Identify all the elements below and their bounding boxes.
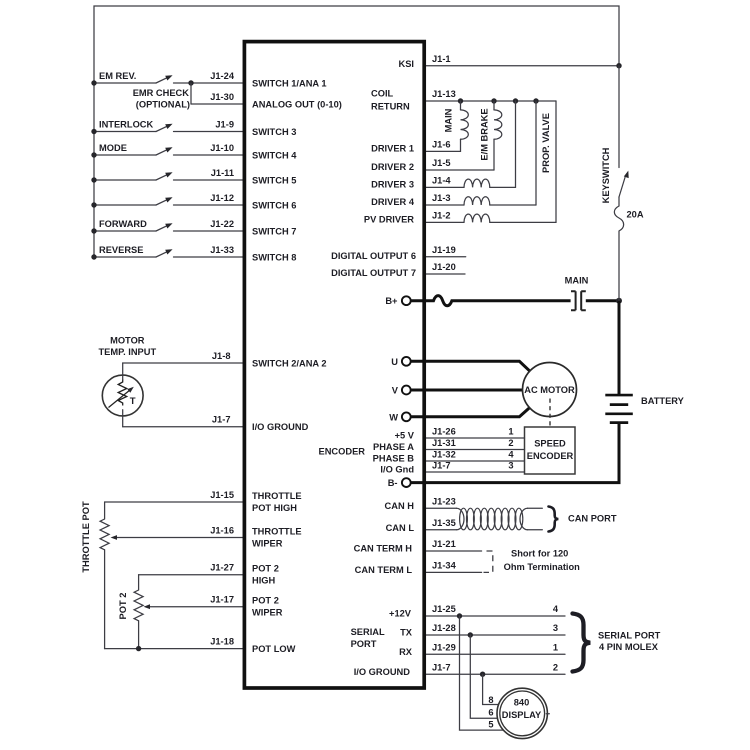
wire CAN L J1-35	[425, 518, 457, 530]
svg-text:T: T	[130, 396, 136, 407]
wire J1-19 digital output 6	[425, 245, 466, 257]
svg-text:FORWARD: FORWARD	[99, 219, 147, 229]
coil load J1-3 (driver 4)	[425, 101, 537, 205]
svg-text:J1-18: J1-18	[210, 636, 234, 646]
svg-text:J1-15: J1-15	[210, 490, 234, 500]
svg-text:J1-33: J1-33	[210, 245, 234, 255]
svg-text:3: 3	[508, 460, 513, 470]
svg-text:4: 4	[508, 449, 514, 459]
switch EM REV. input wire	[91, 71, 244, 86]
svg-text:TEMP. INPUT: TEMP. INPUT	[98, 347, 156, 357]
thermistor RT1 motor temp sensor	[102, 375, 143, 416]
svg-text:2: 2	[553, 662, 558, 672]
wire J1-20 digital output 7	[425, 262, 466, 274]
terminal V	[392, 386, 411, 396]
terminal B+	[385, 296, 410, 306]
svg-text:POT LOW: POT LOW	[252, 644, 296, 654]
svg-text:PV DRIVER: PV DRIVER	[364, 214, 414, 224]
svg-text:SWITCH 6: SWITCH 6	[252, 200, 296, 210]
terminal U	[391, 357, 410, 367]
svg-text:J1-31: J1-31	[432, 438, 456, 448]
coil PROP. VALVE J1-2 (PV driver)	[425, 101, 557, 222]
svg-text:DRIVER 3: DRIVER 3	[371, 179, 414, 189]
svg-text:DRIVER 1: DRIVER 1	[371, 143, 414, 153]
svg-text:J1-10: J1-10	[210, 143, 234, 153]
svg-text:J1-16: J1-16	[210, 525, 234, 535]
svg-text:CAN TERM L: CAN TERM L	[355, 565, 413, 575]
wire encoder I/O Gnd (J1-7, pin 3)	[380, 460, 524, 474]
controller U1 box	[244, 42, 424, 688]
svg-text:(OPTIONAL): (OPTIONAL)	[136, 100, 190, 110]
pin label POT 2 WIPER	[252, 596, 283, 618]
wire keyswitch bus upper	[618, 66, 620, 168]
svg-text:POT HIGH: POT HIGH	[252, 503, 297, 513]
svg-text:J1-21: J1-21	[432, 539, 456, 549]
switch J1-11 input wire	[91, 168, 244, 183]
svg-text:J1-9: J1-9	[215, 119, 234, 129]
svg-text:J1-11: J1-11	[211, 168, 234, 178]
wire J1-8 from thermistor to SWITCH 2	[123, 351, 244, 380]
svg-text:MOTOR: MOTOR	[110, 335, 145, 345]
switch MODE input wire	[91, 143, 244, 158]
svg-text:KSI: KSI	[399, 59, 415, 69]
svg-text:THROTTLE: THROTTLE	[252, 491, 302, 501]
svg-text:B-: B-	[388, 478, 398, 488]
svg-text:RX: RX	[399, 647, 413, 657]
wire display pin 6	[470, 635, 498, 718]
wire encoder +5 V (J1-26, pin 1)	[395, 426, 525, 440]
svg-text:6: 6	[488, 707, 493, 717]
svg-text:J1-1: J1-1	[432, 54, 451, 64]
node junction on J1-7 wire	[480, 672, 485, 677]
svg-text:REVERSE: REVERSE	[99, 245, 143, 255]
svg-text:POT 2: POT 2	[252, 596, 279, 606]
svg-text:J1-29: J1-29	[432, 643, 456, 653]
wire serial I/O GROUND (J1-7, molex pin 2)	[354, 662, 565, 677]
svg-text:8: 8	[488, 695, 493, 705]
wire battery to B-	[411, 423, 620, 483]
wire: top frame from left bus to keyswitch bus	[94, 6, 619, 257]
svg-text:J1-8: J1-8	[212, 351, 231, 361]
svg-text:J1-30: J1-30	[210, 92, 234, 102]
svg-text:J1-35: J1-35	[432, 518, 456, 528]
svg-text:J1-17: J1-17	[210, 595, 234, 605]
twisted pair CAN cable	[457, 508, 543, 530]
svg-text:RETURN: RETURN	[371, 101, 410, 111]
fuse 20A	[614, 197, 643, 301]
svg-text:POT 2: POT 2	[118, 593, 128, 620]
wire J1-7 from thermistor to I/O GROUND	[123, 410, 244, 427]
svg-text:SERIAL PORT: SERIAL PORT	[598, 630, 661, 640]
svg-text:J1-7: J1-7	[432, 662, 451, 672]
svg-text:J1-6: J1-6	[432, 140, 451, 150]
wire J1-30 (EMR check, optional)	[133, 88, 244, 109]
wire encoder PHASE B (J1-32, pin 4)	[373, 449, 525, 463]
svg-text:V: V	[392, 386, 399, 396]
svg-text:1: 1	[508, 426, 513, 436]
svg-text:W: W	[389, 412, 398, 422]
pin label THROTTLE POT HIGH	[252, 491, 302, 513]
svg-text:BATTERY: BATTERY	[641, 396, 685, 406]
svg-text:J1-23: J1-23	[432, 496, 456, 506]
svg-text:PHASE B: PHASE B	[373, 454, 415, 464]
wire serial +12V (J1-25, molex pin 4)	[389, 604, 565, 619]
battery BT1	[605, 395, 684, 423]
svg-text:J1-2: J1-2	[432, 211, 451, 221]
svg-text:2: 2	[508, 438, 513, 448]
svg-text:1: 1	[553, 643, 558, 653]
svg-text:3: 3	[553, 623, 558, 633]
svg-text:J1-24: J1-24	[210, 71, 235, 81]
svg-text:KEYSWITCH: KEYSWITCH	[601, 147, 611, 203]
pin label SERIAL PORT (inside)	[351, 627, 385, 649]
svg-text:J1-26: J1-26	[432, 426, 456, 436]
wire phase V to motor	[411, 389, 523, 392]
display 840	[497, 688, 549, 738]
label SERIAL PORT 4 PIN MOLEX	[598, 630, 661, 652]
dashed termination short link	[484, 551, 493, 572]
switch J1-12 input wire	[91, 193, 244, 208]
svg-text:DIGITAL OUTPUT 7: DIGITAL OUTPUT 7	[331, 268, 416, 278]
svg-text:J1-12: J1-12	[210, 193, 234, 203]
svg-text:Ohm Termination: Ohm Termination	[504, 562, 581, 572]
svg-text:SWITCH 8: SWITCH 8	[252, 252, 296, 262]
svg-text:I/O Gnd: I/O Gnd	[380, 465, 414, 475]
wire CAN H J1-23	[425, 496, 457, 508]
coil E/M BRAKE (J1-13 to J1-5)	[425, 101, 502, 170]
pin label COIL RETURN	[371, 88, 410, 111]
svg-text:J1-28: J1-28	[432, 623, 456, 633]
svg-text:HIGH: HIGH	[252, 576, 276, 586]
svg-text:COIL: COIL	[371, 88, 394, 98]
wire phase U to motor	[411, 361, 530, 371]
node: EMR CHECK junction on J1-24 wire	[188, 80, 193, 104]
svg-text:J1-32: J1-32	[432, 449, 456, 459]
svg-text:+12V: +12V	[389, 609, 412, 619]
svg-text:PROP. VALVE: PROP. VALVE	[541, 113, 551, 173]
wire CAN TERM L J1-34	[425, 561, 482, 573]
switch REVERSE input wire	[91, 245, 244, 260]
pot 2 R2	[134, 563, 244, 649]
svg-text:4: 4	[553, 604, 559, 614]
svg-text:J1-7: J1-7	[212, 415, 231, 425]
svg-text:20A: 20A	[627, 210, 644, 220]
svg-text:J1-13: J1-13	[432, 89, 456, 99]
brace serial port 4 pin molex	[573, 614, 591, 672]
wire B+ junction down to battery	[618, 301, 621, 395]
svg-text:J1-27: J1-27	[210, 563, 234, 573]
wire contactor to battery bus	[586, 298, 622, 304]
wire serial TX (J1-28, molex pin 3)	[400, 623, 565, 638]
svg-text:I/O GROUND: I/O GROUND	[354, 667, 411, 677]
svg-text:I/O GROUND: I/O GROUND	[252, 422, 309, 432]
svg-text:ENCODER: ENCODER	[527, 451, 574, 461]
svg-text:MAIN: MAIN	[565, 276, 589, 286]
svg-text:J1-7: J1-7	[432, 460, 451, 470]
pin label THROTTLE WIPER	[252, 526, 302, 548]
svg-text:PORT: PORT	[351, 639, 377, 649]
throttle pot R1	[100, 490, 244, 649]
switch FORWARD input wire	[91, 219, 244, 234]
wire encoder PHASE A (J1-31, pin 2)	[373, 438, 524, 452]
svg-text:ENCODER: ENCODER	[319, 446, 366, 456]
switch KEYSWITCH	[601, 147, 629, 203]
svg-text:SERIAL: SERIAL	[351, 627, 385, 637]
contactor coil MAIN (J1-13 to J1-6)	[425, 101, 469, 151]
svg-text:MODE: MODE	[99, 143, 127, 153]
speed encoder box	[525, 427, 576, 474]
wire display pin 5	[460, 616, 505, 730]
svg-text:DIGITAL OUTPUT 6: DIGITAL OUTPUT 6	[331, 251, 416, 261]
wire phase W to motor	[411, 408, 530, 417]
wire display pin 8	[483, 674, 500, 705]
svg-text:TX: TX	[400, 628, 413, 638]
wire J1-17 pot 2 wiper	[144, 595, 245, 610]
svg-text:J1-3: J1-3	[432, 193, 451, 203]
svg-text:DRIVER 4: DRIVER 4	[371, 197, 415, 207]
svg-text:Short for 120: Short for 120	[511, 549, 568, 559]
brace CAN port	[549, 507, 559, 532]
switch INTERLOCK input wire	[91, 119, 244, 134]
wire J1-16 throttle wiper	[111, 525, 245, 540]
svg-text:J1-34: J1-34	[432, 561, 457, 571]
node: bus junction dots	[458, 98, 539, 103]
node junction on J1-25 wire	[457, 613, 462, 618]
wire coil return bus J1-13	[425, 89, 557, 101]
svg-text:WIPER: WIPER	[252, 608, 283, 618]
svg-text:CAN TERM H: CAN TERM H	[354, 544, 413, 554]
wire B+ with shunt wiggle to MAIN contactor	[411, 296, 571, 306]
svg-text:J1-5: J1-5	[432, 158, 451, 168]
svg-text:J1-20: J1-20	[432, 262, 456, 272]
svg-text:SWITCH 3: SWITCH 3	[252, 127, 296, 137]
svg-text:J1-25: J1-25	[432, 604, 456, 614]
wire KSI J1-1 to keyswitch bus	[425, 54, 622, 68]
svg-text:J1-19: J1-19	[432, 245, 456, 255]
svg-text:INTERLOCK: INTERLOCK	[99, 119, 154, 129]
node junction on J1-28 wire	[468, 632, 473, 637]
svg-text:THROTTLE: THROTTLE	[252, 526, 302, 536]
svg-text:SWITCH 5: SWITCH 5	[252, 175, 296, 185]
svg-text:AC MOTOR: AC MOTOR	[524, 385, 575, 395]
svg-text:SPEED: SPEED	[534, 439, 566, 449]
svg-text:J1-22: J1-22	[210, 219, 234, 229]
label MOTOR TEMP. INPUT	[98, 335, 156, 357]
svg-text:DISPLAY: DISPLAY	[502, 710, 542, 720]
svg-text:ANALOG OUT (0-10): ANALOG OUT (0-10)	[252, 99, 342, 109]
svg-text:+5 V: +5 V	[395, 431, 415, 441]
svg-text:SWITCH 2/ANA 2: SWITCH 2/ANA 2	[252, 358, 327, 368]
svg-text:J1-4: J1-4	[432, 176, 451, 186]
svg-text:U: U	[391, 357, 398, 367]
svg-text:DRIVER 2: DRIVER 2	[371, 162, 414, 172]
svg-text:CAN L: CAN L	[386, 523, 415, 533]
wire J1-18 pot low	[105, 636, 244, 651]
label Short for 120 Ohm Termination	[504, 549, 581, 572]
terminal W	[389, 412, 410, 422]
svg-text:B+: B+	[385, 296, 398, 306]
wire CAN TERM H J1-21	[425, 539, 482, 551]
svg-text:E/M BRAKE: E/M BRAKE	[480, 108, 490, 160]
svg-text:SWITCH 4: SWITCH 4	[252, 150, 297, 160]
svg-text:CAN H: CAN H	[385, 501, 415, 511]
svg-text:WIPER: WIPER	[252, 538, 283, 548]
coil load J1-4 (driver 3)	[425, 101, 516, 187]
svg-text:MAIN: MAIN	[444, 108, 454, 132]
wire serial RX (J1-29, molex pin 1)	[399, 643, 565, 658]
svg-text:SWITCH 7: SWITCH 7	[252, 226, 296, 236]
svg-text:5: 5	[488, 720, 493, 730]
svg-text:CAN PORT: CAN PORT	[568, 513, 617, 523]
svg-text:EM REV.: EM REV.	[99, 71, 136, 81]
svg-text:PHASE A: PHASE A	[373, 442, 414, 452]
motor shaft dashed link to speed encoder	[549, 399, 551, 438]
svg-text:4 PIN MOLEX: 4 PIN MOLEX	[599, 642, 659, 652]
svg-text:SWITCH 1/ANA 1: SWITCH 1/ANA 1	[252, 78, 327, 88]
terminal B-	[388, 478, 411, 488]
pin label POT 2 HIGH	[252, 564, 279, 586]
svg-text:POT 2: POT 2	[252, 564, 279, 574]
svg-text:EMR CHECK: EMR CHECK	[133, 88, 190, 98]
svg-text:840: 840	[514, 697, 530, 707]
contactor MAIN contacts	[565, 276, 589, 311]
svg-text:THROTTLE POT: THROTTLE POT	[81, 501, 91, 573]
motor M1 AC MOTOR	[523, 363, 577, 417]
